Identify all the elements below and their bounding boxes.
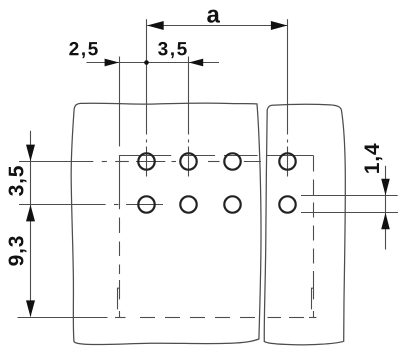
hole circles row 2 (138, 196, 295, 212)
chain dot at col1 (144, 60, 149, 65)
dimension line a y=25.5 (147, 25, 287, 27)
arrow up at lower ext line (381, 213, 390, 230)
latch hook detail right (312, 288, 314, 309)
arrow a left (147, 21, 164, 30)
vertical centre line col4 x=287.5 (287, 19, 289, 176)
latch hook detail left (118, 288, 120, 309)
bottom hidden edge dashed line y=317.5 with solid extension at left (18, 317, 317, 319)
hidden (dashed) right edge of inner outline, right part (313, 156, 315, 318)
arrow up at row2 (26, 205, 35, 222)
vertical centre line col1 x=146.5 (146, 19, 148, 176)
inner contact-area outline right part: top edge (267, 155, 314, 157)
arrow 2,5 (points right) (105, 59, 119, 67)
dimension chain line 2,5 / 3,5 y=62.5 (87, 62, 220, 64)
label 1,4 (rotated) (365, 144, 383, 173)
arrow down at upper ext line (381, 179, 390, 196)
arrow a right (271, 21, 288, 30)
arrow 3,5 (points left) (189, 59, 203, 67)
vertical centre line col2 x=188.5 (188, 57, 190, 177)
arrow down at bottom line (26, 300, 35, 317)
left vertical dimension line x=30.5 (30, 131, 32, 317)
label 3,5 left (rotated) (9, 166, 27, 196)
label 9,3 left (rotated) (9, 236, 27, 265)
arrow down at row1 (26, 145, 35, 162)
hole circles row 1 (138, 153, 295, 169)
inner contact-area outline left part: top edge + left edge (solid portion) (120, 156, 258, 210)
body outline left part (71, 103, 261, 344)
body outline right part (264, 104, 345, 345)
centre line row 1 (dash-dot) y=161.5 (19, 161, 261, 163)
centre line row 2 (dash-dot) y=204.5 (19, 204, 163, 206)
label a (207, 10, 220, 23)
dimension 1,4 extension lines (301, 195, 398, 197)
dimension 1,4 vertical line x=385.5 (385, 166, 387, 250)
hidden (dashed) left edge of inner outline, left part (119, 218, 121, 318)
extension line for 2,5 at x=118.5 (119, 57, 121, 147)
label 3,5 top (158, 42, 187, 58)
label 2,5 (69, 42, 97, 58)
